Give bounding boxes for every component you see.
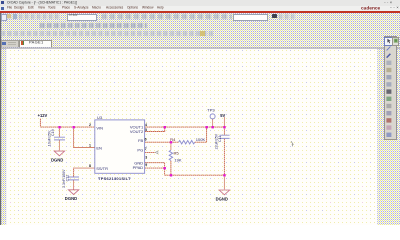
svg-text:C12: C12 <box>65 175 69 182</box>
node r5 gnd <box>170 174 172 176</box>
wire TP3 stem <box>212 119 214 127</box>
IC U3 body <box>95 120 145 173</box>
toolbar row 2 icons <box>40 23 147 28</box>
wire VOUT1 main output <box>145 126 225 128</box>
node fb <box>170 141 172 143</box>
toolbar row 3 icons <box>1 31 213 36</box>
tool line <box>386 133 391 137</box>
wire SS/TR to C12 <box>74 168 95 190</box>
svg-text:VIN: VIN <box>96 125 103 130</box>
svg-text:TPS621301SILT: TPS621301SILT <box>98 176 131 181</box>
tool select arrow <box>387 39 390 44</box>
svg-text:100K: 100K <box>196 137 206 142</box>
svg-text:2: 2 <box>89 123 91 127</box>
svg-text:SS/TR: SS/TR <box>96 166 108 171</box>
ground DGND left <box>54 151 64 156</box>
wire VOUT2 link <box>145 127 165 131</box>
cadence logo <box>361 6 380 11</box>
svg-text:R4: R4 <box>170 137 176 142</box>
left inner highlight <box>5 49 8 225</box>
svg-text:PG: PG <box>137 147 143 152</box>
tool junction <box>386 68 391 72</box>
tab 2 (active PAGE1) <box>19 40 52 48</box>
ground symbols <box>54 151 229 195</box>
wire input cap leg <box>58 127 60 151</box>
tab 1 (inactive) <box>1 40 19 47</box>
wire FB to R4 and riser <box>145 127 207 142</box>
svg-text:EN: EN <box>96 145 102 150</box>
tool bus <box>386 54 390 58</box>
svg-text:PPAD: PPAD <box>133 165 144 170</box>
node r4 riser <box>206 126 208 128</box>
svg-text:+12V: +12V <box>38 113 48 118</box>
svg-text:DGND: DGND <box>65 196 77 201</box>
capacitor C19 plates <box>54 137 65 140</box>
svg-text:7: 7 <box>145 147 147 151</box>
resistor R5 zigzag <box>169 150 172 160</box>
wire +12V to VIN <box>40 119 94 128</box>
svg-text:4: 4 <box>145 123 147 127</box>
tool hier block <box>386 97 391 101</box>
node c11 gnd <box>223 174 225 176</box>
svg-text:C19: C19 <box>51 129 55 136</box>
svg-text:R5: R5 <box>174 151 180 156</box>
tool pin <box>386 111 391 115</box>
tool power <box>386 82 391 86</box>
node tp3 <box>212 126 214 128</box>
node ppad <box>164 167 166 169</box>
tool net alias <box>386 61 391 65</box>
window left frame <box>0 0 1 225</box>
testpoint TP3 circle <box>210 114 215 119</box>
svg-text:9: 9 <box>145 163 147 167</box>
ground DGND bottom-left <box>68 190 78 195</box>
wire C11 legs <box>223 127 225 190</box>
wire PG stub <box>145 151 156 153</box>
tool bus entry <box>386 75 391 79</box>
svg-text:DGND: DGND <box>216 197 228 202</box>
tool ground <box>386 89 391 93</box>
node vout2 <box>164 126 166 128</box>
toolbar row1 accent icons <box>1 14 7 21</box>
svg-text:C11: C11 <box>218 136 222 142</box>
part graphics <box>54 114 230 180</box>
tool off-page <box>386 118 391 122</box>
capacitor C12 plates <box>68 177 79 180</box>
wire 5V stem <box>223 117 225 127</box>
left out-of-page strip <box>1 49 6 225</box>
title bar <box>0 0 400 6</box>
wire R5 legs <box>170 142 172 175</box>
svg-text:1: 1 <box>89 143 91 147</box>
schematic text <box>38 108 228 202</box>
ground DGND right <box>219 190 229 195</box>
menu bar <box>0 6 400 12</box>
tool part green icon <box>393 39 397 43</box>
capacitor C11 plates <box>219 135 229 138</box>
svg-text:5V: 5V <box>220 113 225 118</box>
canvas top border <box>1 48 400 49</box>
right out-of-page hatch <box>377 49 400 225</box>
svg-text:DGND: DGND <box>51 157 63 162</box>
junction dots <box>58 126 225 177</box>
no-connect PG marker <box>155 151 158 154</box>
svg-text:6: 6 <box>145 137 147 141</box>
svg-text:19K: 19K <box>174 157 181 162</box>
tool wire <box>386 47 390 51</box>
node vin-en <box>73 126 75 128</box>
node 5v <box>223 126 225 128</box>
pin numbers <box>89 123 147 168</box>
svg-text:TP3: TP3 <box>207 108 215 113</box>
resistor R4 zigzag <box>179 141 195 144</box>
svg-text:U3: U3 <box>97 115 103 120</box>
svg-text:8: 8 <box>89 164 91 168</box>
tool port <box>386 104 391 108</box>
svg-text:5: 5 <box>145 128 147 132</box>
mouse cursor <box>291 141 293 146</box>
toolbar row 1 icons <box>1 14 60 19</box>
wire EN drop <box>74 127 95 147</box>
tool no-connect <box>386 125 391 129</box>
wire ground rail <box>165 174 225 176</box>
svg-text:VOUT2: VOUT2 <box>130 129 144 134</box>
wire GND PPAD tie <box>145 163 165 176</box>
page background <box>7 49 377 225</box>
red cadence line <box>0 11 400 12</box>
node vin-cap <box>58 126 60 128</box>
svg-text:FB: FB <box>138 138 143 143</box>
svg-text:3: 3 <box>145 156 147 160</box>
chrome dither background <box>0 13 400 48</box>
right tool palette <box>384 36 397 140</box>
